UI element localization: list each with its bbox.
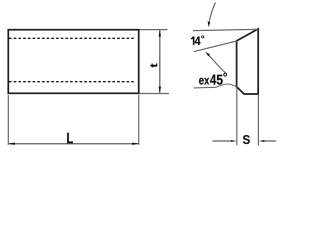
dimension arrow S right bbox=[259, 140, 276, 142]
tip body outline (front view rectangle) bbox=[8, 30, 138, 94]
label S bbox=[243, 135, 250, 144]
extension line bottom for t bbox=[140, 93, 170, 95]
extension line right for L bbox=[138, 95, 140, 145]
dimension line L bbox=[8, 143, 139, 145]
hidden line (upper dashed) bbox=[9, 37, 136, 39]
extension line top for t bbox=[140, 29, 168, 31]
extension line right for S bbox=[257, 95, 259, 146]
side view outline (cross-section with chamfer) bbox=[237, 29, 259, 94]
label 14 deg bbox=[191, 37, 194, 46]
leader arrow to 14 deg line bbox=[205, 52, 226, 74]
leader underline from ex45 to chamfer bbox=[194, 84, 237, 88]
label L bbox=[67, 133, 73, 143]
reference line C (14 deg face line) bbox=[194, 41, 237, 52]
label t (rotated) bbox=[150, 63, 157, 67]
extension line left for L bbox=[7, 95, 9, 145]
dimension line t bbox=[159, 30, 161, 93]
extension line left for S bbox=[236, 88, 238, 146]
reference line A (horizontal, for 14 deg) bbox=[193, 29, 258, 30]
dimension arrow S left bbox=[213, 140, 237, 142]
label ex45 deg bbox=[199, 78, 204, 85]
leader arrow to horizontal line (14 deg) bbox=[208, 3, 216, 28]
hidden line (lower dashed) bbox=[9, 81, 136, 83]
